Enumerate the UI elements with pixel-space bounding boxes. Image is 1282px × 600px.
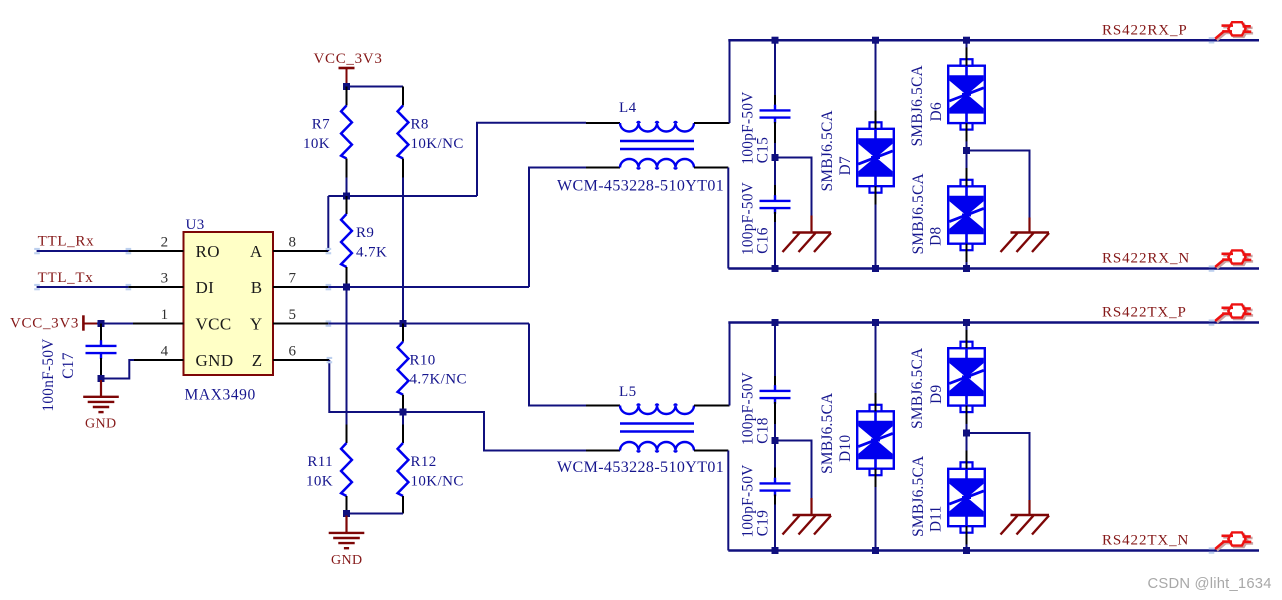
wire D6-D8 node to gnd fork (967, 151, 1030, 218)
inductor L5 common-mode choke (586, 404, 730, 452)
power port VCC_3V3 (top) (313, 51, 382, 87)
svg-text:R7: R7 (312, 117, 330, 133)
svg-text:100nF-50V: 100nF-50V (40, 338, 57, 411)
capacitor C18 (760, 323, 791, 441)
ground fork near C19 (783, 498, 832, 535)
node A junction (343, 193, 350, 200)
pin 3 DI (128, 270, 214, 297)
wire VCC top bar (347, 86, 404, 88)
transil D8 (966, 151, 968, 269)
svg-text:C15: C15 (754, 137, 771, 163)
svg-text:D7: D7 (837, 156, 854, 175)
svg-text:1: 1 (161, 307, 169, 323)
svg-text:R8: R8 (411, 117, 429, 133)
ground fork near D11 (1001, 500, 1050, 535)
svg-text:MAX3490: MAX3490 (185, 387, 256, 404)
ground fork near C16 (783, 216, 832, 253)
svg-text:2: 2 (161, 234, 169, 250)
wire rail RS422RX_N (728, 267, 1259, 270)
wire B net horizontal (328, 286, 529, 288)
svg-text:SMBJ6.5CA: SMBJ6.5CA (909, 348, 926, 429)
transil D10 (875, 323, 877, 551)
wire R7 to node A (346, 178, 348, 197)
resistor R9 (341, 196, 352, 287)
wire node A to L4 top (477, 123, 586, 196)
wire node A to pin8 (327, 196, 329, 251)
resistor R11 (341, 287, 352, 514)
resistor R7 (341, 87, 352, 178)
node D7 bottom junction (872, 265, 879, 272)
transil D11 (966, 433, 968, 551)
transil D6 (966, 40, 968, 150)
svg-text:4.7K/NC: 4.7K/NC (410, 372, 467, 388)
wire Z net (329, 360, 586, 451)
port RS422RX_P (1215, 22, 1253, 40)
wire VCC to pin1 (97, 323, 133, 325)
wire pin4 to C17 (101, 360, 134, 379)
svg-text:RS422RX_N: RS422RX_N (1102, 251, 1190, 267)
svg-text:WCM-453228-510YT01: WCM-453228-510YT01 (557, 459, 724, 476)
node D11 bottom junction (963, 547, 970, 554)
svg-text:Y: Y (250, 314, 263, 333)
svg-text:10K: 10K (306, 473, 333, 489)
pin 7 B (251, 270, 329, 297)
svg-text:RS422TX_P: RS422TX_P (1102, 305, 1187, 321)
svg-text:Z: Z (252, 351, 263, 370)
svg-text:D8: D8 (928, 227, 945, 246)
capacitor C15 (760, 40, 791, 157)
svg-text:SMBJ6.5CA: SMBJ6.5CA (910, 173, 927, 254)
op-amp U3 MAX3490 body (184, 232, 274, 375)
wire C15 mid to gnd fork (775, 158, 812, 216)
svg-text:A: A (250, 242, 263, 261)
power port VCC_3V3 (left) (10, 315, 98, 331)
svg-text:C17: C17 (60, 352, 77, 378)
node D10 bottom junction (872, 547, 879, 554)
node C15 top junction (772, 37, 779, 44)
pin 5 Y (250, 307, 328, 334)
svg-text:SMBJ6.5CA: SMBJ6.5CA (819, 110, 836, 191)
pin 1 VCC (133, 307, 232, 334)
svg-text:WCM-453228-510YT01: WCM-453228-510YT01 (557, 178, 724, 195)
svg-text:3: 3 (161, 270, 169, 286)
capacitor C17 (86, 324, 117, 379)
port RS422RX_N (1215, 250, 1253, 268)
wire rail RS422RX_P (728, 39, 1259, 42)
wire R8 to Y net (402, 178, 404, 324)
svg-text:R10: R10 (410, 352, 436, 368)
wire C18 mid to gnd fork (775, 441, 812, 499)
svg-text:RS422TX_N: RS422TX_N (1102, 533, 1189, 549)
node VCC top junction (343, 83, 350, 90)
wire L5 top to TX_P rail (729, 323, 731, 406)
svg-text:SMBJ6.5CA: SMBJ6.5CA (819, 393, 836, 474)
node R11 gnd junction (343, 510, 350, 517)
node C19 bottom junction (772, 547, 779, 554)
svg-text:L4: L4 (619, 100, 637, 116)
svg-text:VCC_3V3: VCC_3V3 (10, 316, 79, 332)
ground GND under R11 (329, 516, 365, 549)
svg-text:L5: L5 (619, 384, 636, 400)
node D7 top junction (872, 37, 879, 44)
capacitor C19 (760, 441, 791, 551)
node C18 top junction (772, 319, 779, 326)
svg-text:RS422RX_P: RS422RX_P (1102, 22, 1188, 38)
svg-text:VCC: VCC (196, 314, 232, 333)
wire Y to L5 top (529, 324, 586, 406)
svg-text:B: B (251, 278, 263, 297)
node D9-D11 junction (963, 430, 970, 437)
svg-text:8: 8 (289, 234, 297, 250)
port RS422TX_N (1215, 532, 1253, 550)
resistor R12 (398, 412, 409, 514)
wire node A horizontal (328, 195, 477, 197)
svg-text:4: 4 (161, 343, 169, 359)
wire rail RS422TX_N (728, 549, 1259, 552)
node C16 bottom junction (772, 265, 779, 272)
svg-text:R12: R12 (411, 454, 437, 470)
svg-text:VCC_3V3: VCC_3V3 (313, 51, 382, 67)
svg-text:D6: D6 (928, 102, 945, 121)
wire L4 bottom to RX_N rail (727, 168, 729, 269)
node C17 gnd junction (98, 375, 105, 382)
svg-text:U3: U3 (186, 217, 205, 233)
node C18-C19 junction (772, 437, 779, 444)
transil D9 (966, 323, 968, 434)
node C15-C16 junction (772, 154, 779, 161)
svg-text:R9: R9 (356, 225, 374, 241)
svg-text:R11: R11 (307, 454, 333, 470)
node B junction (343, 284, 350, 291)
resistor R10 (398, 324, 409, 413)
svg-text:TTL_Tx: TTL_Tx (38, 270, 94, 286)
pin 8 A (250, 234, 328, 261)
node Z junction R10-R12 (400, 409, 407, 416)
port RS422TX_P (1215, 304, 1253, 322)
svg-text:GND: GND (196, 351, 234, 370)
node VCC_3V3 junction (98, 320, 105, 327)
pin 6 Z (252, 343, 330, 370)
svg-text:5: 5 (289, 307, 297, 323)
svg-text:CSDN @liht_1634: CSDN @liht_1634 (1148, 576, 1272, 592)
svg-text:GND: GND (85, 416, 117, 431)
node D10 top junction (872, 319, 879, 326)
svg-text:SMBJ6.5CA: SMBJ6.5CA (909, 65, 926, 146)
wire L4 top to RX_P rail (729, 40, 731, 123)
svg-text:RO: RO (196, 242, 220, 261)
svg-text:6: 6 (289, 343, 297, 359)
svg-text:D10: D10 (837, 435, 854, 462)
svg-text:4.7K: 4.7K (356, 244, 387, 260)
svg-text:C18: C18 (754, 417, 771, 443)
wire L5 bottom to TX_N rail (727, 451, 729, 551)
wire TTL_Rx (37, 250, 129, 252)
svg-text:D9: D9 (928, 385, 945, 404)
svg-text:TTL_Rx: TTL_Rx (38, 234, 95, 250)
pin 4 GND (134, 343, 234, 370)
transil D7 (875, 40, 877, 268)
wire D9-D11 node to gnd fork (967, 433, 1030, 500)
wire R11-R12 bottom (347, 513, 404, 515)
wire B to L4 bottom (529, 168, 586, 288)
node D6-D8 junction (963, 147, 970, 154)
ground fork near D8 (1001, 218, 1050, 253)
wire TTL_Tx (37, 286, 129, 288)
svg-text:C19: C19 (754, 510, 771, 536)
svg-text:GND: GND (331, 553, 363, 568)
svg-text:10K/NC: 10K/NC (411, 473, 464, 489)
resistor R8 (398, 87, 409, 178)
capacitor C16 (760, 158, 791, 269)
svg-text:C16: C16 (754, 227, 771, 253)
svg-text:DI: DI (196, 278, 215, 297)
compile mask marks (34, 37, 1214, 554)
node D6 top junction (963, 37, 970, 44)
node D8 bottom junction (963, 265, 970, 272)
wire Y net horizontal (328, 323, 529, 325)
svg-text:D11: D11 (928, 505, 945, 532)
wire rail RS422TX_P (728, 321, 1259, 324)
node Y junction R8 (400, 320, 407, 327)
svg-text:10K: 10K (303, 136, 330, 152)
pin 2 RO (128, 234, 220, 261)
svg-text:10K/NC: 10K/NC (411, 136, 464, 152)
svg-text:SMBJ6.5CA: SMBJ6.5CA (910, 456, 927, 537)
ground GND under C17 (83, 380, 119, 412)
svg-text:7: 7 (289, 270, 297, 286)
inductor L4 common-mode choke (586, 122, 730, 169)
node D9 top junction (963, 319, 970, 326)
